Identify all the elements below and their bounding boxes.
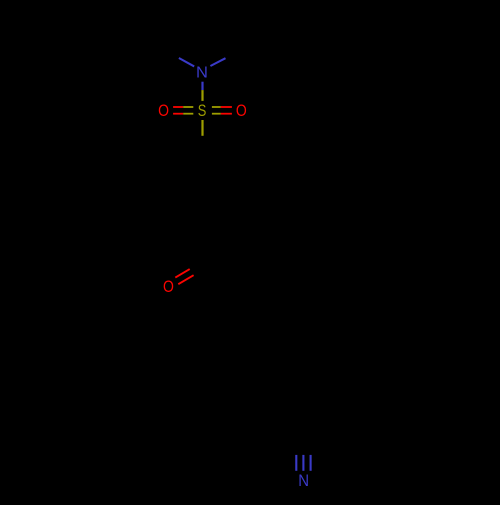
svg-text:N: N [298, 473, 309, 491]
double bond S1=O2 lower line (O half red) [221, 113, 232, 115]
svg-text:N: N [196, 64, 208, 82]
double bond S1=O2 lower line (S half yellow) [212, 113, 221, 115]
svg-text:O: O [158, 102, 169, 120]
double bond S1=O1 lower line (S half yellow) [183, 113, 193, 115]
svg-text:O: O [236, 102, 247, 120]
triple bond C#N2 left line (N half) [295, 455, 297, 471]
double bond S1=O2 upper line (O half red) [221, 106, 232, 108]
bond N1-S1 (S half) [201, 90, 203, 101]
double bond S1=O1 upper line (O half red) [173, 106, 183, 108]
svg-text:O: O [163, 278, 174, 296]
double bond S1=O2 upper line (S half yellow) [212, 106, 221, 108]
bond N1-CH3 left (N half) [179, 58, 194, 66]
bond N1-CH3 right (N half) [210, 58, 225, 66]
triple bond C#N2 right line (N half) [310, 455, 312, 471]
double bond C=O3 ketone lower line (O half red) [178, 275, 193, 284]
bond S1-C(aryl) (S half) [201, 120, 203, 136]
bond N1-S1 (N half) [201, 82, 203, 90]
triple bond C#N2 middle line (N half) [302, 455, 304, 471]
double bond S1=O1 lower line (O half red) [173, 113, 183, 115]
double bond C=O3 ketone upper line (O half red) [175, 269, 189, 278]
svg-text:S: S [198, 103, 207, 121]
double bond S1=O1 upper line (S half yellow) [183, 106, 193, 108]
